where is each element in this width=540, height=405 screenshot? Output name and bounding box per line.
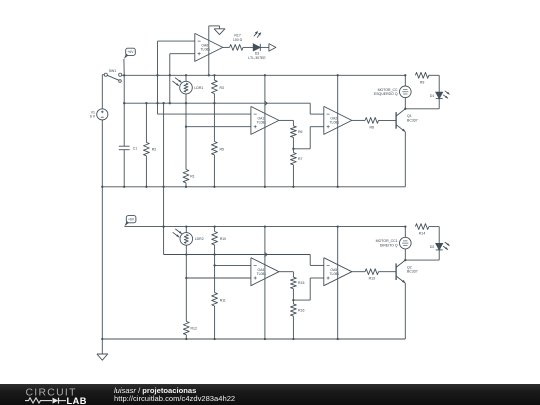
wire: rail to OA5 minus <box>309 255 311 266</box>
junction arrow (OA4 supply crossing) <box>265 252 268 257</box>
resistor R6 <box>291 126 297 137</box>
svg-text:D1: D1 <box>430 94 435 98</box>
wire: +6V rail (top) <box>122 74 406 76</box>
svg-text:6 V: 6 V <box>90 115 96 119</box>
svg-text:LTL-307EE: LTL-307EE <box>248 56 266 60</box>
wire: OA2 supply column <box>337 75 339 187</box>
svg-text:R15: R15 <box>298 281 304 285</box>
motor MOTOR_CC1 DIREITO <box>400 237 412 249</box>
op-amp OA6 <box>195 33 223 61</box>
junction arrow (OA1 supply crossing) <box>265 101 268 106</box>
voltage source V1 <box>101 75 103 109</box>
svg-text:R5: R5 <box>220 147 225 151</box>
svg-text:R12: R12 <box>191 326 197 330</box>
photoresistor LDR1 <box>185 75 187 81</box>
resistor R8 <box>352 119 365 121</box>
svg-text:ESQUERDO Q: ESQUERDO Q <box>374 92 398 96</box>
svg-text:R2: R2 <box>152 148 157 152</box>
wire: Q1 collector node <box>404 98 406 109</box>
wire: OA1 plus input <box>186 126 251 128</box>
wire: OA6 V+ to ground <box>208 26 210 75</box>
wire: +6V rail (bottom) <box>125 226 406 228</box>
resistor R9 <box>415 72 428 78</box>
svg-text:R8: R8 <box>370 125 375 129</box>
wire: OA1 minus input <box>158 113 251 115</box>
resistor R15 <box>291 277 297 289</box>
wire: OA4 plus input <box>186 277 251 279</box>
resistor R11 <box>214 255 216 293</box>
wire: divider rail (bottom) <box>164 254 311 256</box>
LED D1 <box>436 92 443 99</box>
wire: R6/R7 node to OA2 plus <box>293 148 310 150</box>
wire: OA5 minus input <box>310 264 324 266</box>
svg-text:R14: R14 <box>419 232 425 236</box>
resistor R7 <box>292 149 294 153</box>
svg-text:R1: R1 <box>190 174 195 178</box>
wire: OA6 minus input <box>158 40 195 42</box>
op-amp OA2 <box>324 106 352 134</box>
motor MOTOR_CC ESQUERDO <box>400 86 412 98</box>
wire: OA4 minus input <box>215 264 251 266</box>
svg-text:C1: C1 <box>133 146 138 150</box>
op-amp OA4 <box>251 258 279 286</box>
LED D3 LTL-307EE <box>243 46 253 48</box>
wire: OA1 supply column <box>264 75 266 187</box>
svg-text:BC337: BC337 <box>407 118 418 122</box>
resistor R16 <box>292 300 294 304</box>
resistor R13 <box>352 271 365 273</box>
wire: Q2 emitter to rail <box>404 283 406 339</box>
CircuitLab logo <box>0 384 110 405</box>
resistor R14 <box>415 224 428 230</box>
svg-text:LAB: LAB <box>67 396 87 405</box>
svg-text:100 Ω: 100 Ω <box>233 38 243 42</box>
output node flag (top) <box>260 46 269 48</box>
wire: OA5 supply column <box>337 227 339 339</box>
wire: OA4 supply column <box>264 227 266 339</box>
wire: rail to OA2 minus <box>309 103 311 114</box>
resistor R3 <box>213 75 215 80</box>
wire: C1 column <box>123 75 125 146</box>
transistor Q2 BC337 <box>395 263 397 280</box>
svg-text:R6: R6 <box>298 130 303 134</box>
resistor R1 <box>185 103 187 169</box>
+6V net flag (bottom) <box>126 216 136 223</box>
svg-text:BC337: BC337 <box>407 270 418 274</box>
wire: mid ground rail <box>102 186 405 188</box>
svg-text:+6V: +6V <box>127 50 134 54</box>
svg-text:LDR1: LDR1 <box>194 86 203 90</box>
switch SW1 <box>102 74 104 76</box>
svg-text:R7: R7 <box>298 157 303 161</box>
svg-text:R16: R16 <box>298 308 304 312</box>
resistor R12 <box>185 255 187 322</box>
photoresistor LDR2 <box>185 227 187 233</box>
op-amp OA5 <box>324 258 352 286</box>
wire: ground link (mid) <box>163 103 165 254</box>
transistor Q1 BC337 <box>395 112 397 129</box>
wire: Q1 emitter to rail <box>404 132 406 187</box>
svg-text:D2: D2 <box>430 245 435 249</box>
wire: OA2 minus input <box>310 113 324 115</box>
resistor R17 100 Ohm <box>223 46 230 48</box>
wire: OA6 plus input <box>170 53 195 55</box>
svg-text:R10: R10 <box>220 237 226 241</box>
wire: OA1 output <box>279 119 294 121</box>
ground (main) <box>101 339 103 354</box>
svg-text:DIREITO Q: DIREITO Q <box>380 243 398 247</box>
svg-text:LDR2: LDR2 <box>195 237 204 241</box>
svg-text:R3: R3 <box>220 86 225 90</box>
+6V net flag (top) <box>126 48 136 55</box>
svg-text:R9: R9 <box>420 80 425 84</box>
resistor R2 <box>145 103 147 142</box>
wire: OA4 output <box>279 271 294 273</box>
svg-text:+6V: +6V <box>128 218 135 222</box>
capacitor C1 <box>119 145 130 147</box>
wire: R15/R16 node to OA5 plus <box>293 299 310 301</box>
wire: bottom ground rail <box>102 338 405 340</box>
wire: Q2 collector node <box>404 249 406 260</box>
wire: divider rail (top) <box>124 102 310 104</box>
ground (near OA6) <box>219 26 221 29</box>
op-amp OA1 <box>251 106 279 134</box>
LED D2 <box>436 243 443 250</box>
resistor R10 <box>214 227 216 232</box>
svg-text:R11: R11 <box>220 299 226 303</box>
svg-text:R13: R13 <box>369 277 375 281</box>
resistor R5 <box>213 103 215 141</box>
svg-text:SW1: SW1 <box>109 69 117 73</box>
